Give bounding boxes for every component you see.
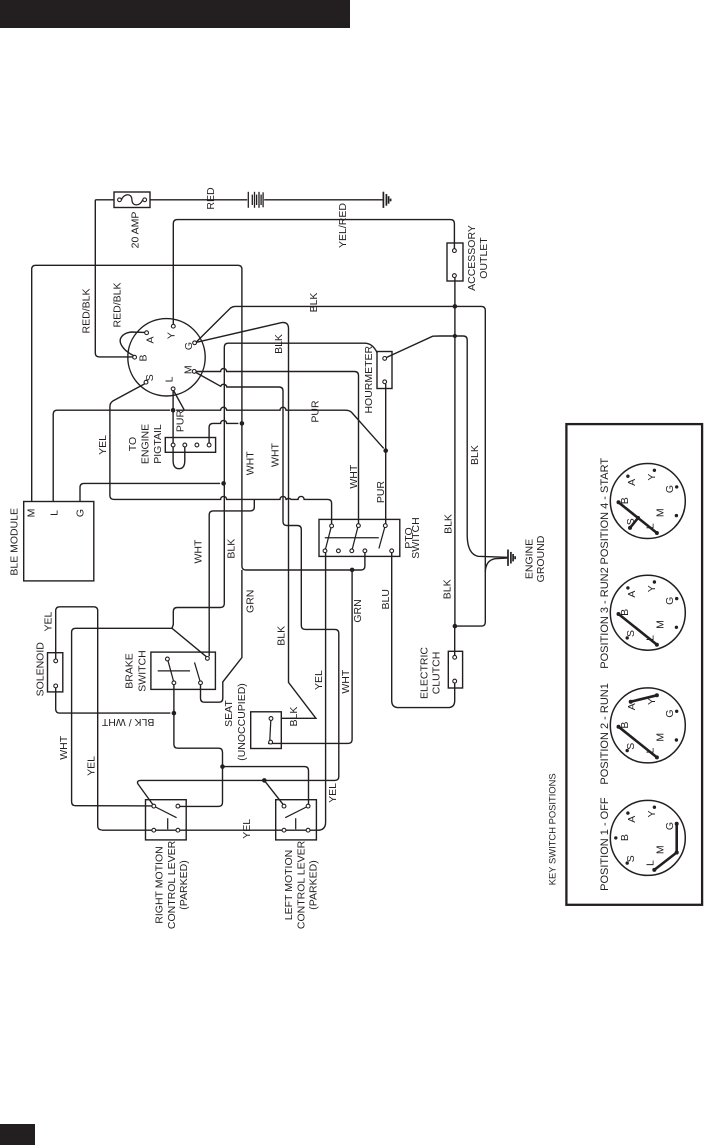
svg-text:RED/BLK: RED/BLK bbox=[112, 283, 124, 328]
svg-text:GRN: GRN bbox=[245, 590, 257, 613]
svg-text:SWITCH: SWITCH bbox=[137, 650, 149, 691]
svg-text:BLK: BLK bbox=[469, 445, 481, 465]
svg-text:BLK: BLK bbox=[225, 539, 237, 559]
svg-text:BRAKE: BRAKE bbox=[124, 653, 136, 689]
svg-text:A: A bbox=[626, 816, 638, 823]
svg-text:GRN: GRN bbox=[352, 599, 364, 622]
svg-text:RED: RED bbox=[205, 187, 217, 210]
svg-text:BLU: BLU bbox=[380, 589, 392, 609]
svg-text:M: M bbox=[654, 620, 666, 629]
svg-text:L: L bbox=[164, 376, 176, 382]
svg-text:ACCESSORY: ACCESSORY bbox=[466, 225, 478, 291]
svg-text:HOURMETER: HOURMETER bbox=[363, 345, 375, 413]
svg-text:BLK: BLK bbox=[275, 626, 287, 646]
svg-text:S: S bbox=[144, 374, 156, 381]
svg-text:A: A bbox=[626, 591, 638, 598]
svg-text:ENGINE: ENGINE bbox=[523, 539, 535, 579]
svg-text:ELECTRIC: ELECTRIC bbox=[418, 647, 430, 699]
svg-text:(PARKED): (PARKED) bbox=[178, 860, 190, 909]
svg-text:POSITION 3 - RUN2: POSITION 3 - RUN2 bbox=[599, 567, 611, 668]
svg-text:A: A bbox=[145, 336, 157, 343]
svg-text:(UNOCCUPIED): (UNOCCUPIED) bbox=[236, 683, 248, 761]
svg-text:POSITION 1 - OFF: POSITION 1 - OFF bbox=[599, 797, 611, 891]
svg-text:RED/BLK: RED/BLK bbox=[81, 289, 93, 334]
svg-text:S: S bbox=[625, 630, 637, 637]
svg-text:KEY SWITCH POSITIONS: KEY SWITCH POSITIONS bbox=[546, 773, 557, 885]
svg-text:M: M bbox=[26, 509, 38, 518]
svg-text:BLK: BLK bbox=[443, 514, 455, 534]
svg-text:G: G bbox=[664, 597, 676, 605]
svg-text:B: B bbox=[137, 354, 149, 361]
svg-text:20 AMP: 20 AMP bbox=[129, 212, 141, 249]
svg-text:Y: Y bbox=[646, 810, 658, 817]
svg-text:BLK: BLK bbox=[273, 334, 285, 354]
svg-text:Y: Y bbox=[646, 698, 658, 705]
svg-text:WHT: WHT bbox=[193, 539, 205, 563]
svg-text:S: S bbox=[625, 855, 637, 862]
svg-text:G: G bbox=[664, 709, 676, 717]
svg-text:M: M bbox=[654, 845, 666, 854]
svg-text:PIGTAIL: PIGTAIL bbox=[152, 424, 164, 464]
svg-text:G: G bbox=[75, 509, 87, 517]
svg-text:Y: Y bbox=[646, 474, 658, 481]
svg-text:YEL: YEL bbox=[42, 612, 54, 632]
svg-text:POSITION 2 - RUN1: POSITION 2 - RUN1 bbox=[599, 683, 611, 784]
svg-text:RIGHT MOTION: RIGHT MOTION bbox=[154, 846, 166, 923]
svg-text:YEL: YEL bbox=[327, 783, 339, 803]
svg-text:CLUTCH: CLUTCH bbox=[431, 652, 443, 695]
svg-text:WHT: WHT bbox=[244, 451, 256, 475]
svg-text:M: M bbox=[654, 508, 666, 517]
svg-text:Y: Y bbox=[166, 332, 178, 339]
svg-text:PUR: PUR bbox=[375, 481, 387, 504]
svg-text:S: S bbox=[625, 743, 637, 750]
svg-text:YEL: YEL bbox=[86, 756, 98, 776]
svg-text:YEL: YEL bbox=[313, 670, 325, 690]
svg-text:A: A bbox=[626, 703, 638, 710]
svg-text:YEL: YEL bbox=[97, 435, 109, 455]
svg-text:WHT: WHT bbox=[340, 669, 352, 693]
svg-text:BLK: BLK bbox=[288, 707, 300, 727]
svg-text:ENGINE: ENGINE bbox=[140, 424, 152, 464]
svg-text:SEAT: SEAT bbox=[223, 700, 235, 727]
svg-text:PUR: PUR bbox=[175, 409, 187, 432]
svg-text:G: G bbox=[664, 485, 676, 493]
svg-text:YEL: YEL bbox=[241, 819, 253, 839]
svg-text:TO: TO bbox=[127, 437, 139, 451]
svg-text:M: M bbox=[183, 365, 195, 374]
svg-text:A: A bbox=[626, 479, 638, 486]
svg-text:Y: Y bbox=[646, 585, 658, 592]
svg-text:L: L bbox=[49, 510, 61, 516]
svg-text:WHT: WHT bbox=[348, 464, 360, 488]
svg-text:(PARKED): (PARKED) bbox=[308, 860, 320, 909]
svg-text:WHT: WHT bbox=[270, 442, 282, 466]
svg-text:BLK / WHT: BLK / WHT bbox=[101, 716, 154, 728]
svg-text:L: L bbox=[645, 860, 657, 866]
svg-text:SWITCH: SWITCH bbox=[410, 517, 422, 558]
svg-text:M: M bbox=[654, 733, 666, 742]
svg-text:BLK: BLK bbox=[441, 579, 453, 599]
svg-text:CONTROL LEVER: CONTROL LEVER bbox=[166, 840, 178, 929]
svg-text:CONTROL LEVER: CONTROL LEVER bbox=[296, 840, 308, 929]
svg-text:G: G bbox=[183, 342, 195, 350]
svg-text:SOLENOID: SOLENOID bbox=[34, 642, 46, 697]
svg-text:B: B bbox=[619, 834, 631, 841]
svg-text:BLE MODULE: BLE MODULE bbox=[9, 508, 21, 576]
svg-text:OUTLET: OUTLET bbox=[478, 237, 490, 279]
svg-text:BLK: BLK bbox=[308, 293, 320, 313]
svg-text:GROUND: GROUND bbox=[535, 535, 547, 582]
svg-text:G: G bbox=[664, 822, 676, 830]
svg-text:POSITION 4 - START: POSITION 4 - START bbox=[599, 458, 611, 565]
svg-text:LEFT MOTION: LEFT MOTION bbox=[283, 850, 295, 920]
svg-text:WHT: WHT bbox=[58, 735, 70, 759]
svg-text:PUR: PUR bbox=[310, 400, 322, 423]
svg-text:YEL/RED: YEL/RED bbox=[337, 203, 349, 248]
